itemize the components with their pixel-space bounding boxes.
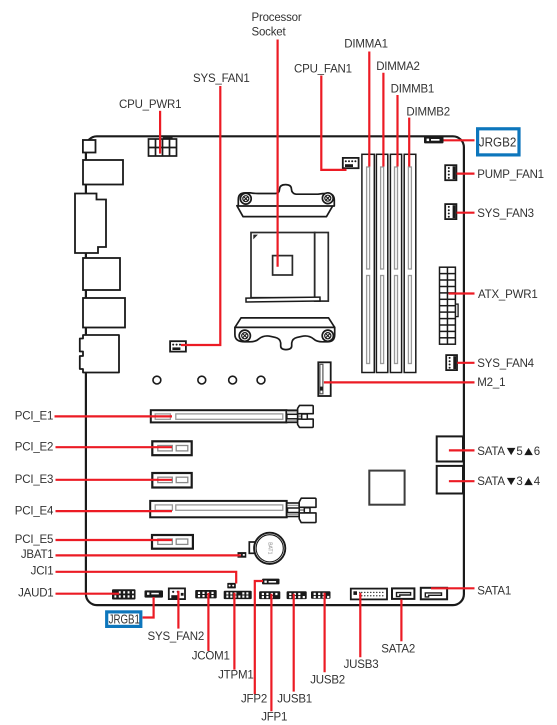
IO port USB top bbox=[83, 160, 123, 185]
connector SYS_FAN1 bbox=[170, 341, 186, 351]
wire DIMMB2 bbox=[408, 118, 410, 167]
wire SYS_FAN1 bbox=[181, 86, 220, 345]
svg-text:DIMMA1: DIMMA1 bbox=[344, 38, 388, 50]
svg-text:SATA1: SATA1 bbox=[477, 586, 511, 598]
M2_1 slot bbox=[318, 362, 330, 396]
cpu socket lever bbox=[246, 297, 320, 302]
connector SYS_FAN2 bbox=[169, 588, 185, 599]
IO port PS2 bbox=[83, 140, 96, 153]
connector PUMP_FAN1 bbox=[445, 165, 456, 180]
bottom retention bracket bbox=[235, 318, 335, 350]
connector JRGB2 bbox=[424, 136, 444, 143]
svg-text:CPU_PWR1: CPU_PWR1 bbox=[119, 99, 181, 111]
wire PCI_E1 bbox=[55, 415, 173, 417]
wire JUSB3 bbox=[359, 593, 361, 657]
cpu socket inner square bbox=[273, 256, 293, 275]
wire CPU_FAN1 bbox=[321, 76, 346, 170]
wire SYS_FAN3 bbox=[457, 212, 475, 214]
connector JAUD1 bbox=[112, 589, 136, 599]
top bracket screw right bbox=[322, 193, 333, 204]
wire DIMMA1 bbox=[368, 52, 370, 167]
svg-text:JFP2: JFP2 bbox=[241, 693, 267, 705]
svg-text:PCI_E4: PCI_E4 bbox=[15, 505, 54, 517]
top bracket screw left bbox=[240, 193, 251, 204]
DIMM slots bbox=[362, 154, 416, 372]
cpu socket body bbox=[251, 233, 315, 298]
svg-text:DIMMB1: DIMMB1 bbox=[391, 84, 435, 96]
cpu socket corner mark bbox=[253, 235, 258, 240]
top retention bracket bbox=[237, 185, 334, 217]
IO port audio bbox=[80, 335, 119, 373]
wire SATA2 bbox=[400, 600, 402, 642]
svg-text:SATA: SATA bbox=[477, 446, 505, 458]
label JRGB1 box bbox=[107, 612, 141, 627]
screw holes bbox=[153, 376, 265, 384]
PCI_E4 latch bbox=[287, 498, 316, 522]
wire SATA34 bbox=[449, 480, 475, 482]
wire JCI1 bbox=[56, 572, 237, 584]
svg-text:PCI_E1: PCI_E1 bbox=[15, 411, 53, 423]
wire SATA56 bbox=[449, 449, 475, 451]
IO port USB2 bbox=[83, 298, 125, 328]
svg-text:SYS_FAN4: SYS_FAN4 bbox=[477, 358, 534, 370]
svg-text:JBAT1: JBAT1 bbox=[21, 549, 54, 561]
wire JRGB2 bbox=[444, 139, 475, 141]
wire PCI_E4 bbox=[56, 510, 173, 512]
wire JUSB1 bbox=[293, 594, 295, 692]
svg-text:DIMMA2: DIMMA2 bbox=[376, 61, 420, 73]
svg-text:ATX_PWR1: ATX_PWR1 bbox=[478, 289, 538, 301]
svg-text:PUMP_FAN1: PUMP_FAN1 bbox=[477, 169, 544, 181]
wire JFP1 bbox=[270, 594, 272, 712]
connector JFP1 bbox=[259, 591, 280, 599]
connector JUSB3 bbox=[351, 589, 387, 600]
svg-text:JAUD1: JAUD1 bbox=[18, 588, 53, 600]
svg-text:SATA2: SATA2 bbox=[381, 643, 415, 655]
wire JUSB2 bbox=[324, 593, 326, 673]
connector JBAT1 bbox=[238, 552, 247, 558]
svg-text:BAT1: BAT1 bbox=[267, 542, 273, 554]
IO port LAN bbox=[83, 258, 120, 290]
svg-text:Processor: Processor bbox=[252, 12, 302, 24]
bottom bracket screw left bbox=[239, 330, 250, 341]
wire JBAT1 bbox=[56, 554, 241, 556]
connector SYS_FAN3 bbox=[445, 204, 456, 219]
red leader lines bbox=[55, 40, 475, 712]
wire SYS_FAN2 bbox=[177, 591, 179, 629]
bottom bracket screw right bbox=[322, 330, 333, 341]
svg-text:JTPM1: JTPM1 bbox=[218, 669, 253, 681]
connector CPU_PWR1 grid bbox=[149, 139, 177, 156]
PCI_E2 slot bbox=[152, 441, 191, 455]
board outline bbox=[86, 136, 464, 605]
svg-text:JUSB3: JUSB3 bbox=[344, 659, 379, 671]
connector SYS_FAN4 bbox=[446, 355, 457, 370]
PCI_E1 latch bbox=[286, 405, 313, 427]
svg-text:3: 3 bbox=[516, 476, 522, 488]
wire PCI_E5 bbox=[56, 539, 173, 541]
SATA 5/6 box bbox=[437, 436, 463, 461]
svg-text:5: 5 bbox=[516, 446, 522, 458]
wire PCI_E2 bbox=[56, 446, 173, 448]
wire ATX_PWR1 bbox=[449, 292, 475, 294]
wire JFP2 bbox=[255, 581, 263, 694]
svg-text:CPU_FAN1: CPU_FAN1 bbox=[294, 63, 352, 75]
PCI_E1 slot bbox=[151, 410, 287, 422]
svg-text:SATA: SATA bbox=[477, 476, 505, 488]
battery BAT1 bbox=[249, 533, 285, 564]
wire CPU_PWR1 bbox=[159, 111, 161, 154]
connector JCOM1 bbox=[195, 590, 217, 598]
svg-text:PCI_E5: PCI_E5 bbox=[15, 534, 53, 546]
connector JCI1 bbox=[227, 583, 236, 589]
svg-text:6: 6 bbox=[534, 446, 540, 458]
connector SATA1 bbox=[421, 588, 447, 600]
wire JAUD1 bbox=[56, 593, 120, 595]
svg-text:JRGB1: JRGB1 bbox=[109, 612, 140, 627]
connector JUSB1 bbox=[287, 591, 307, 599]
wire PCI_E3 bbox=[56, 479, 173, 481]
svg-text:JRGB2: JRGB2 bbox=[479, 135, 517, 150]
svg-text:M2_1: M2_1 bbox=[477, 377, 505, 389]
wire PUMP_FAN1 bbox=[457, 173, 475, 175]
label SATA 3 4 bbox=[477, 476, 541, 488]
svg-text:4: 4 bbox=[534, 476, 541, 488]
IO port DVI bbox=[75, 194, 106, 254]
svg-text:JFP1: JFP1 bbox=[261, 712, 287, 724]
wire DIMMB1 bbox=[396, 95, 398, 167]
SATA 3/4 box bbox=[437, 466, 463, 494]
label SATA 5 6 bbox=[477, 446, 540, 458]
PCI_E4 slot bbox=[150, 501, 287, 517]
label JRGB2 box bbox=[478, 129, 519, 155]
connector SATA2 bbox=[392, 588, 414, 599]
svg-text:JUSB2: JUSB2 bbox=[310, 675, 345, 687]
svg-text:SYS_FAN3: SYS_FAN3 bbox=[477, 208, 534, 220]
cpu socket right flap bbox=[315, 233, 329, 302]
connector CPU_FAN1 bbox=[343, 158, 359, 168]
svg-text:PCI_E3: PCI_E3 bbox=[15, 474, 53, 486]
wire M2_1 bbox=[324, 381, 475, 383]
connector JRGB1 bbox=[145, 590, 164, 597]
chipset square bbox=[369, 471, 404, 505]
wire JCOM1 bbox=[207, 593, 209, 651]
connector JUSB2 bbox=[311, 591, 331, 598]
wire Processor Socket bbox=[277, 40, 279, 267]
svg-text:DIMMB2: DIMMB2 bbox=[406, 106, 450, 118]
ATX_PWR1 bbox=[440, 267, 459, 344]
svg-text:JCI1: JCI1 bbox=[31, 566, 54, 578]
PCI_E5 slot bbox=[152, 535, 193, 549]
svg-text:Socket: Socket bbox=[252, 27, 287, 39]
svg-text:SYS_FAN2: SYS_FAN2 bbox=[148, 631, 205, 643]
svg-text:JCOM1: JCOM1 bbox=[192, 650, 230, 662]
wire JRGB1 bbox=[143, 597, 154, 618]
connector JFP2 flat bbox=[262, 579, 280, 585]
PCI_E3 slot bbox=[152, 473, 191, 488]
svg-text:JUSB1: JUSB1 bbox=[277, 694, 312, 706]
svg-text:SYS_FAN1: SYS_FAN1 bbox=[193, 73, 250, 85]
svg-text:PCI_E2: PCI_E2 bbox=[15, 441, 53, 453]
wire SATA1 bbox=[431, 587, 475, 589]
wire JTPM1 bbox=[233, 593, 235, 670]
wire DIMMA2 bbox=[382, 73, 384, 167]
wire SYS_FAN4 bbox=[457, 362, 474, 364]
connector JTPM1 bbox=[224, 591, 252, 599]
